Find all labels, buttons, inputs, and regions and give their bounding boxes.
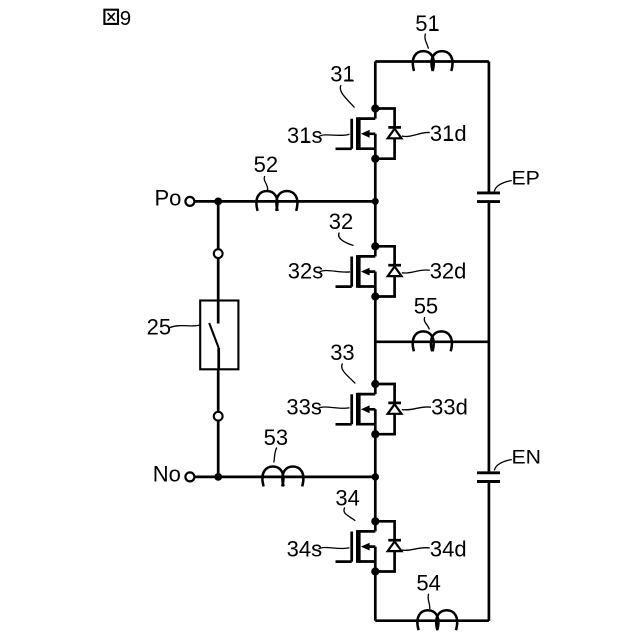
svg-text:34: 34 [335,485,359,510]
svg-text:9: 9 [120,7,131,30]
svg-text:31d: 31d [430,121,467,146]
svg-text:33d: 33d [431,394,468,419]
svg-text:EP: EP [512,168,540,189]
svg-text:32: 32 [329,209,353,234]
svg-text:54: 54 [416,571,440,596]
svg-text:33s: 33s [286,394,321,419]
svg-text:31s: 31s [287,123,322,148]
svg-text:32s: 32s [288,259,323,284]
svg-text:34s: 34s [287,537,322,562]
svg-text:34d: 34d [430,537,467,562]
svg-text:25: 25 [147,315,171,340]
svg-text:Po: Po [155,186,182,211]
svg-text:33: 33 [330,340,354,365]
svg-text:EN: EN [512,447,542,468]
svg-text:No: No [153,462,181,487]
svg-text:55: 55 [414,294,438,319]
svg-text:52: 52 [254,152,278,177]
svg-text:31: 31 [330,62,354,87]
svg-text:53: 53 [264,425,288,450]
svg-text:51: 51 [415,11,439,36]
svg-text:32d: 32d [430,259,467,284]
